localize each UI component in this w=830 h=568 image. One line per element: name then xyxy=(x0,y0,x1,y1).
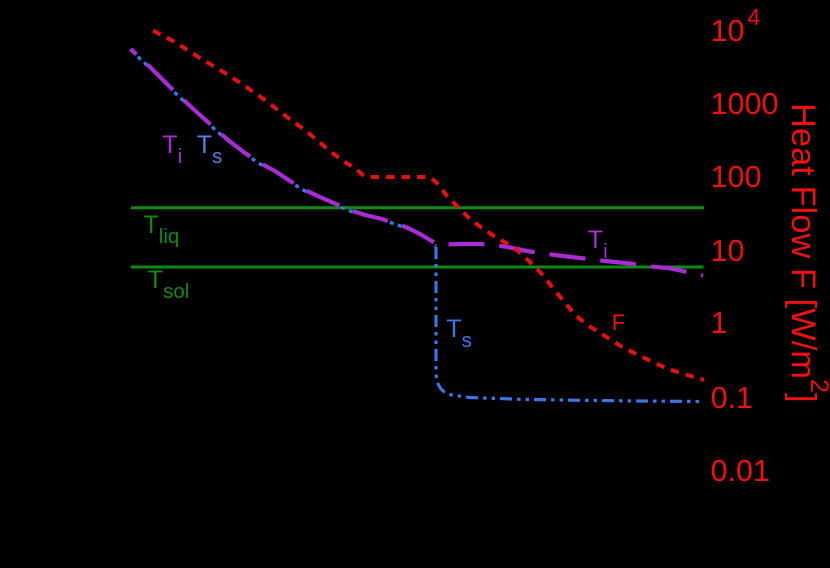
tick 0.1 xyxy=(711,383,753,414)
curve F (red dotted) xyxy=(153,31,704,381)
label Ti (top-left, purple) xyxy=(162,133,182,158)
line Tsol (green horizontal) xyxy=(131,266,704,269)
label Ti (right, purple) xyxy=(588,228,608,253)
label Tsol (green) xyxy=(148,268,190,293)
tick 10^4 xyxy=(711,16,761,47)
tick 10 xyxy=(711,236,745,267)
axis title Heat Flow F [W/m2] (red, rotated) xyxy=(785,103,820,403)
curve Ts (blue, pre-split: dots in purple gaps) xyxy=(131,50,437,246)
tick 100 xyxy=(711,162,762,193)
line Tliq (green horizontal) xyxy=(131,206,704,209)
label Ts (top-left, blue) xyxy=(197,133,223,158)
tick 1000 xyxy=(711,89,779,120)
curve Ts (blue, post-split: vertical drop and flat tail, dash-dot-dot) xyxy=(436,247,704,402)
curve Ti (purple long dash) xyxy=(131,49,704,276)
label Ts (middle, blue) xyxy=(446,317,472,342)
label Tliq (green) xyxy=(144,213,180,238)
tick 0.01 xyxy=(711,456,770,487)
tick 1 xyxy=(711,308,728,339)
label F (red) xyxy=(612,312,625,334)
